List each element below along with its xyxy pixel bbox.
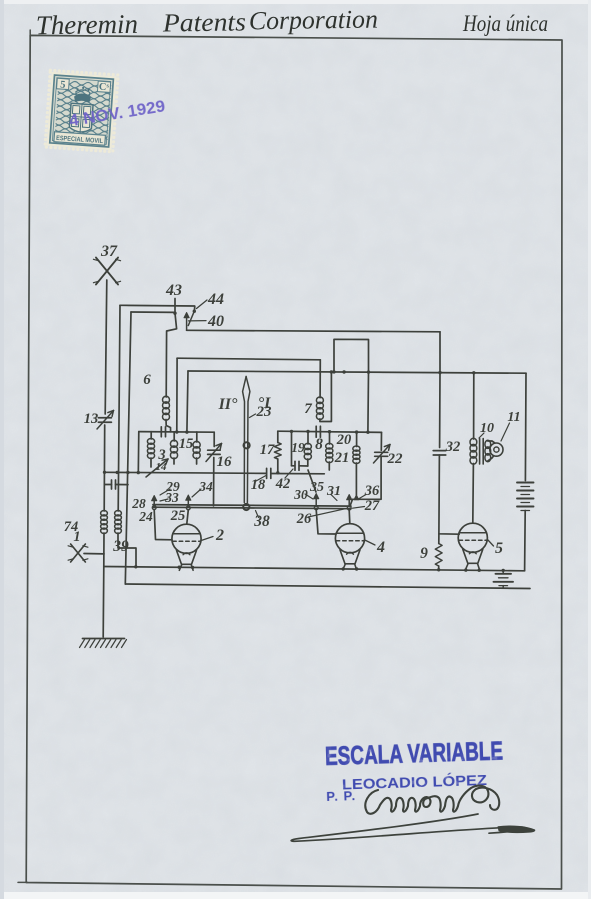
svg-text:35: 35: [309, 480, 324, 495]
svg-text:31: 31: [326, 484, 341, 499]
svg-text:P. P.: P. P.: [326, 788, 356, 804]
svg-text:26: 26: [296, 511, 312, 527]
svg-text:16: 16: [217, 454, 233, 470]
svg-text:5: 5: [60, 79, 66, 90]
svg-text:37: 37: [100, 243, 118, 260]
svg-text:22: 22: [387, 451, 404, 467]
svg-text:2: 2: [215, 527, 224, 544]
svg-text:44: 44: [207, 291, 224, 308]
svg-text:Cˢ: Cˢ: [98, 82, 109, 94]
svg-text:39: 39: [112, 538, 129, 555]
svg-text:27: 27: [364, 498, 380, 514]
svg-text:4: 4: [376, 539, 385, 556]
svg-text:°I: °I: [258, 395, 271, 412]
svg-text:17: 17: [260, 442, 275, 458]
svg-text:34: 34: [198, 479, 213, 494]
svg-text:ESCALA VARIABLE: ESCALA VARIABLE: [325, 735, 504, 771]
svg-text:33: 33: [164, 490, 179, 505]
svg-text:20: 20: [336, 432, 352, 448]
svg-text:13: 13: [84, 411, 99, 427]
svg-text:21: 21: [334, 450, 350, 466]
svg-text:9: 9: [420, 545, 428, 562]
svg-text:Theremin: Theremin: [36, 9, 138, 40]
svg-text:11: 11: [507, 410, 520, 425]
svg-text:Corporation: Corporation: [249, 5, 378, 36]
svg-text:40: 40: [207, 313, 224, 330]
svg-text:8: 8: [315, 436, 323, 453]
svg-text:18: 18: [251, 477, 266, 493]
svg-text:Hoja única: Hoja única: [462, 11, 548, 36]
svg-text:30: 30: [293, 487, 308, 502]
svg-text:6: 6: [143, 372, 151, 388]
svg-text:32: 32: [445, 439, 461, 455]
svg-text:5: 5: [495, 540, 503, 557]
svg-text:24: 24: [138, 509, 153, 524]
svg-text:1: 1: [73, 529, 80, 545]
svg-text:3: 3: [157, 447, 165, 463]
svg-text:36: 36: [364, 483, 380, 499]
svg-text:19: 19: [291, 440, 305, 455]
svg-text:42: 42: [275, 476, 291, 492]
svg-text:25: 25: [170, 508, 186, 524]
svg-text:Patents: Patents: [162, 7, 246, 37]
svg-text:10: 10: [480, 421, 494, 436]
svg-text:43: 43: [165, 282, 182, 299]
svg-text:II°: II°: [218, 396, 238, 413]
svg-text:15: 15: [179, 436, 194, 452]
svg-text:38: 38: [253, 513, 270, 530]
svg-text:7: 7: [304, 401, 312, 417]
